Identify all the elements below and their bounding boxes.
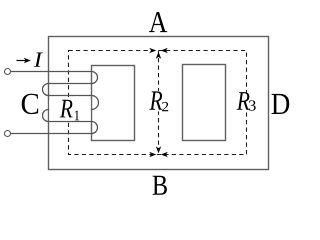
center limb flux path R2 (dashed vertical line): [158, 51, 160, 155]
core outline (outer rectangle): [49, 37, 269, 170]
reluctance R2 label background: [149, 91, 169, 112]
flux arrows at top junction (node at top of center limb): [149, 48, 167, 59]
label D (right side of core): [272, 94, 290, 114]
terminal top: [5, 69, 11, 75]
label C (left side, coil terminals): [22, 94, 39, 114]
left window of core: [92, 66, 135, 141]
reluctance R3 label background: [236, 92, 257, 111]
reluctance R3: [237, 92, 256, 111]
label B (bottom side of core): [153, 176, 167, 195]
reluctance R2: [149, 91, 168, 111]
mean flux path (dashed rectangle): [69, 51, 247, 155]
reluctance R1: [60, 100, 79, 121]
current arrow: [17, 58, 31, 63]
terminal bottom: [5, 131, 11, 137]
label A (top side of core): [149, 12, 167, 32]
right window of core: [183, 65, 226, 141]
reluctance R1 label background: [49, 100, 91, 121]
flux arrows at bottom junction (node at bottom of center limb): [149, 146, 167, 157]
label I (current): [34, 53, 43, 67]
coil winding around left limb: [10, 72, 98, 134]
